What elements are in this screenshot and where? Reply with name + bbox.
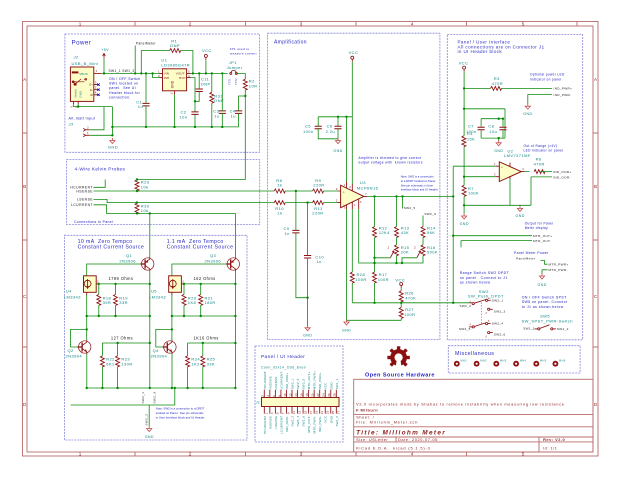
svg-text:GND: GND bbox=[303, 334, 312, 338]
svg-text:+5V: +5V bbox=[101, 48, 109, 52]
svg-text:SW1_1 SW1_2: SW1_1 SW1_2 bbox=[109, 69, 135, 73]
resistor R2 bbox=[243, 79, 257, 91]
resistor R7 bbox=[462, 185, 479, 196]
wire Q2 collector riser bbox=[86, 316, 88, 340]
svg-text:4: 4 bbox=[266, 395, 270, 397]
svg-text:9: 9 bbox=[287, 412, 291, 414]
wire Q1 collector down bbox=[149, 271, 151, 388]
svg-text:USB_B_Mini: USB_B_Mini bbox=[72, 61, 99, 66]
svg-text:SW2_5: SW2_5 bbox=[302, 378, 306, 389]
mounting hole MH2 bbox=[474, 359, 487, 367]
wire R17 riser bbox=[374, 258, 376, 272]
svg-text:8: 8 bbox=[277, 395, 281, 397]
svg-text:VBUS: VBUS bbox=[79, 72, 87, 76]
mounting hole MH5 bbox=[533, 359, 546, 367]
svg-text:5: 5 bbox=[522, 22, 525, 27]
svg-text:18: 18 bbox=[305, 393, 309, 397]
wire bus 343 bbox=[102, 343, 149, 356]
wire R30 bus bbox=[137, 203, 235, 214]
svg-text:MCP6N16: MCP6N16 bbox=[357, 185, 379, 190]
svg-text:VCC: VCC bbox=[324, 415, 328, 423]
wire feed from R2 down bbox=[137, 96, 245, 180]
wire U3 output bbox=[367, 195, 453, 197]
svg-text:INH: INH bbox=[164, 76, 169, 80]
svg-text:LED indicator on panel: LED indicator on panel bbox=[524, 149, 564, 153]
wire Q4 base loop bbox=[156, 329, 172, 347]
capacitor C2 bbox=[180, 109, 199, 119]
wire R31 bbox=[211, 73, 213, 127]
svg-text:LCURRENT: LCURRENT bbox=[279, 372, 283, 390]
wire R27 bottom gnd bus bbox=[347, 318, 402, 320]
svg-text:J2: J2 bbox=[73, 55, 79, 60]
wire R26 bottom bbox=[400, 302, 402, 308]
wire R17 bottom bbox=[374, 283, 376, 303]
svg-text:SW2_1: SW2_1 bbox=[141, 392, 145, 404]
wire R19 stubs bbox=[115, 284, 117, 316]
svg-text:IND_PWR-: IND_PWR- bbox=[554, 93, 572, 97]
wire R28 riser bbox=[351, 209, 353, 272]
svg-text:100R: 100R bbox=[404, 312, 415, 317]
svg-text:ON / OFF Switch SPST: ON / OFF Switch SPST bbox=[522, 295, 567, 299]
svg-text:SW2_3: SW2_3 bbox=[153, 392, 157, 404]
wire R29 stubs bbox=[136, 180, 138, 192]
svg-text:Connections to Panel: Connections to Panel bbox=[74, 220, 113, 224]
svg-text:7: 7 bbox=[281, 412, 285, 414]
svg-text:MTR_OUT-: MTR_OUT- bbox=[533, 239, 551, 243]
svg-text:GND: GND bbox=[329, 382, 333, 390]
wire minus input branch bbox=[464, 176, 496, 178]
svg-text:Q4: Q4 bbox=[153, 348, 160, 353]
mounting hole MH6 bbox=[553, 359, 566, 367]
svg-text:VCC: VCC bbox=[459, 60, 469, 65]
connector J2 USB_B_Mini bbox=[70, 55, 101, 108]
svg-text:Panel Meter Power: Panel Meter Power bbox=[514, 251, 549, 255]
svg-text:1n: 1n bbox=[316, 259, 321, 264]
svg-text:Range Switch SW2 DPDT: Range Switch SW2 DPDT bbox=[460, 271, 510, 275]
wire VCC drop bbox=[205, 60, 207, 73]
svg-text:D-: D- bbox=[90, 88, 93, 92]
transistor Q3 2N3906 bbox=[205, 253, 240, 271]
svg-text:180R: 180R bbox=[205, 300, 216, 305]
svg-text:MH4: MH4 bbox=[520, 359, 527, 363]
Amplification section box bbox=[268, 33, 440, 339]
wire HSENSE to amplifier bbox=[94, 190, 275, 192]
svg-text:25: 25 bbox=[331, 410, 335, 414]
capacitor C11 bbox=[196, 76, 211, 91]
svg-text:GND: GND bbox=[108, 145, 118, 150]
svg-text:HSENSE: HSENSE bbox=[268, 416, 272, 429]
mounting hole MH4 bbox=[513, 359, 526, 367]
svg-text:56K: 56K bbox=[427, 230, 435, 235]
regulator U1 LD3985G47R bbox=[158, 58, 191, 95]
svg-text:2N3906: 2N3906 bbox=[119, 258, 136, 263]
svg-text:SW2_4: SW2_4 bbox=[296, 416, 300, 427]
wire bottom bus A bbox=[87, 387, 236, 389]
svg-text:IND_PWR+: IND_PWR+ bbox=[554, 87, 573, 91]
svg-text:100n: 100n bbox=[303, 129, 314, 134]
svg-text:27: 27 bbox=[337, 410, 341, 414]
current source U4 LM334Z bbox=[64, 276, 100, 300]
note optional power LED bbox=[530, 73, 565, 82]
svg-text:TST2: TST2 bbox=[234, 78, 238, 85]
resistor R18 bbox=[97, 294, 112, 305]
wire U4 bottom bbox=[86, 295, 88, 316]
svg-text:24: 24 bbox=[322, 393, 326, 397]
op-amp U3 MCP6N16 bbox=[336, 180, 379, 209]
svg-text:-: - bbox=[501, 176, 502, 180]
svg-text:MH3: MH3 bbox=[500, 359, 507, 363]
wire VCC divider vertical bbox=[463, 72, 465, 109]
svg-text:in User Interface block and UI: in User Interface block and UI Header bbox=[156, 416, 205, 420]
transistor Q4 2N3904 bbox=[151, 340, 176, 359]
svg-text:on panel. Connect to J1: on panel. Connect to J1 bbox=[460, 276, 508, 280]
svg-text:13: 13 bbox=[298, 410, 302, 414]
svg-text:Rev: V2.0: Rev: V2.0 bbox=[543, 437, 565, 442]
wire C7 C8 rail bbox=[464, 109, 505, 141]
svg-text:470K: 470K bbox=[405, 295, 416, 300]
svg-text:GND: GND bbox=[523, 112, 532, 116]
svg-text:3: 3 bbox=[300, 452, 303, 457]
current source U5 LM334Z bbox=[149, 276, 185, 300]
Power section box bbox=[65, 34, 260, 152]
svg-text:Id: 1/1: Id: 1/1 bbox=[543, 445, 557, 450]
svg-text:2: 2 bbox=[189, 22, 192, 27]
svg-text:4-Wire Kelvin Probes: 4-Wire Kelvin Probes bbox=[75, 166, 126, 171]
jumper JP1 bbox=[230, 71, 238, 75]
wire +5V to bus bbox=[103, 59, 105, 73]
svg-text:-: - bbox=[343, 202, 344, 206]
wire riser to Q1 emitter bbox=[149, 213, 151, 257]
wire R12 bottom to R15 wiper bbox=[375, 238, 391, 258]
svg-text:SW2_2: SW2_2 bbox=[460, 304, 472, 308]
svg-text:1: 1 bbox=[265, 412, 269, 414]
svg-text:Header block for: Header block for bbox=[109, 91, 141, 95]
svg-text:+: + bbox=[343, 190, 345, 194]
svg-text:SW2_4: SW2_4 bbox=[492, 322, 504, 326]
note SW2 DPST bbox=[401, 175, 438, 192]
wire op-amp gnd pin down bbox=[346, 209, 348, 320]
svg-text:HCURRENT: HCURRENT bbox=[263, 416, 267, 434]
resistor R29 bbox=[135, 180, 150, 191]
svg-text:15K: 15K bbox=[467, 137, 475, 142]
svg-text:MTR_PWR+: MTR_PWR+ bbox=[313, 371, 317, 389]
svg-text:1u: 1u bbox=[138, 104, 143, 109]
wire panelmeter to MTR_PWR+ bbox=[541, 261, 548, 265]
svg-text:Conn_02x14_Odd_Even: Conn_02x14_Odd_Even bbox=[261, 366, 306, 370]
svg-text:162 Ohms: 162 Ohms bbox=[194, 276, 216, 281]
wire R21 stubs bbox=[200, 284, 202, 316]
shield pins bottom bbox=[73, 101, 78, 104]
svg-text:Amplifier is trimmed to give c: Amplifier is trimmed to give correct bbox=[358, 156, 421, 160]
svg-text:GND: GND bbox=[145, 435, 154, 439]
svg-text:23: 23 bbox=[325, 410, 329, 414]
wire bottom bus B bbox=[71, 388, 175, 405]
svg-text:1K8: 1K8 bbox=[188, 300, 197, 305]
svg-text:19: 19 bbox=[314, 410, 318, 414]
wire Q4 collector riser bbox=[171, 316, 173, 340]
wire between R8 R9 bbox=[285, 190, 337, 192]
resistor R31 bbox=[210, 92, 224, 103]
ground R7 bbox=[460, 214, 469, 226]
junction dots amp bbox=[295, 116, 404, 304]
svg-text:Alt. Batt Input: Alt. Batt Input bbox=[69, 116, 96, 120]
note amplifier trim bbox=[358, 156, 422, 165]
svg-text:J1: J1 bbox=[255, 401, 261, 405]
svg-text:MTR_OUT-: MTR_OUT- bbox=[307, 416, 311, 433]
note out of range bbox=[524, 144, 564, 153]
trimmer R16 bbox=[414, 245, 438, 258]
svg-text:IND_OOR-: IND_OOR- bbox=[285, 416, 289, 432]
wire C1 bbox=[145, 73, 147, 127]
wire INH tie bbox=[153, 73, 160, 77]
svg-text:26: 26 bbox=[327, 393, 331, 397]
wire R24 R25 bottoms bbox=[188, 367, 203, 388]
power symbol VCC amp bbox=[349, 50, 359, 62]
svg-text:470R: 470R bbox=[492, 81, 503, 86]
svg-text:MH5: MH5 bbox=[540, 359, 547, 363]
svg-text:B: B bbox=[594, 184, 597, 189]
svg-text:MH6: MH6 bbox=[559, 359, 566, 363]
svg-text:2: 2 bbox=[189, 452, 192, 457]
svg-text:10u: 10u bbox=[489, 129, 497, 134]
junction dots ui bbox=[452, 87, 504, 304]
ground C9 C10 bbox=[303, 325, 312, 337]
wire R23 stub bbox=[117, 343, 119, 356]
power symbol VCC ui bbox=[459, 60, 469, 71]
svg-text:VCC: VCC bbox=[395, 278, 405, 283]
svg-text:33R: 33R bbox=[119, 300, 128, 305]
svg-text:to a DPDT located on Panel.: to a DPDT located on Panel. bbox=[401, 179, 437, 183]
svg-text:6: 6 bbox=[272, 395, 276, 397]
svg-text:GND: GND bbox=[460, 222, 469, 226]
svg-text:5: 5 bbox=[276, 412, 280, 414]
wire Q2 base loop bbox=[71, 329, 87, 347]
transistor Q1 2N3906 bbox=[119, 253, 153, 271]
junction dots kelvin bbox=[136, 178, 151, 214]
svg-text:IND_OOR-: IND_OOR- bbox=[553, 175, 571, 179]
svg-text:Output for Panel: Output for Panel bbox=[525, 222, 554, 226]
svg-text:LD3985G47R: LD3985G47R bbox=[161, 63, 190, 68]
svg-text:1n: 1n bbox=[285, 231, 290, 236]
wire mid bus 303 bbox=[352, 302, 469, 304]
svg-text:3: 3 bbox=[300, 22, 303, 27]
resistor R22 bbox=[100, 356, 115, 367]
wire R2 bottom jog to C4 bbox=[239, 90, 246, 127]
svg-text:GND: GND bbox=[329, 415, 333, 423]
svg-text:SW2_6: SW2_6 bbox=[494, 333, 506, 337]
wire C3 bbox=[221, 73, 223, 127]
node MTR_OUT- bbox=[461, 241, 532, 248]
svg-text:located on Panel. See pin sch: located on Panel. See pin schematic bbox=[156, 411, 204, 415]
wire R16 wiper bbox=[402, 258, 417, 263]
wire 162 ohm bus bbox=[184, 283, 235, 285]
svg-text:2.2u: 2.2u bbox=[326, 129, 335, 134]
svg-text:SW2_1: SW2_1 bbox=[291, 378, 295, 389]
ground amp caps bbox=[333, 138, 342, 153]
wire C9 net bbox=[296, 191, 308, 298]
node MTR_OUT+ bbox=[453, 235, 532, 237]
svg-text:1: 1 bbox=[79, 22, 82, 27]
resistor R12 bbox=[373, 225, 391, 237]
svg-text:Panel / UI Header: Panel / UI Header bbox=[261, 354, 305, 360]
svg-text:39R: 39R bbox=[103, 300, 112, 305]
svg-text:33K: 33K bbox=[207, 361, 215, 366]
svg-text:100R: 100R bbox=[378, 277, 389, 282]
svg-text:VCC: VCC bbox=[324, 382, 328, 390]
ground SW2_2 bbox=[145, 426, 154, 439]
svg-text:22: 22 bbox=[316, 393, 320, 397]
wire R28 bottom to bus bbox=[351, 283, 353, 303]
svg-text:1K16 Ohms: 1K16 Ohms bbox=[194, 336, 219, 341]
wire U2 vminus down bbox=[509, 179, 511, 205]
wire LSENSE to amplifier bbox=[94, 199, 275, 202]
svg-text:Open Source Hardware: Open Source Hardware bbox=[365, 373, 435, 379]
wire cap rail bbox=[318, 117, 352, 126]
miscellaneous box bbox=[448, 346, 580, 373]
svg-text:2N3904: 2N3904 bbox=[151, 354, 168, 359]
svg-text:SW1 located on: SW1 located on bbox=[109, 82, 138, 86]
wire node SW2_5 stub bbox=[402, 196, 404, 208]
svg-text:VCC: VCC bbox=[202, 48, 212, 53]
svg-text:SW2_5: SW2_5 bbox=[404, 206, 416, 210]
Panel User Interface section box bbox=[447, 34, 582, 339]
svg-text:LSENSE: LSENSE bbox=[274, 376, 278, 389]
svg-text:SW2_1: SW2_1 bbox=[492, 298, 504, 302]
svg-text:+: + bbox=[501, 166, 503, 170]
svg-text:File: Milliohm_Meter.sch: File: Milliohm_Meter.sch bbox=[356, 420, 418, 425]
svg-text:SW2_5: SW2_5 bbox=[459, 327, 471, 331]
svg-text:LSENSE: LSENSE bbox=[274, 416, 278, 429]
wire Q3 collector down bbox=[234, 271, 236, 388]
resistor R21 bbox=[199, 294, 216, 305]
capacitor C3 bbox=[213, 108, 226, 118]
svg-text:Optional power LED: Optional power LED bbox=[530, 73, 565, 77]
wire C10 net bbox=[307, 203, 309, 327]
svg-text:in UI Header block: in UI Header block bbox=[458, 49, 503, 54]
svg-text:11: 11 bbox=[292, 411, 296, 414]
svg-text:220R: 220R bbox=[313, 183, 324, 188]
ground power bbox=[108, 138, 118, 150]
svg-text:LMV7271MF: LMV7271MF bbox=[504, 153, 531, 158]
svg-text:Size: USLetter: Size: USLetter bbox=[356, 437, 388, 442]
wire R18 stubs bbox=[98, 284, 100, 316]
wire VCC2 to R26 bbox=[400, 288, 402, 291]
wire VCC vertical bbox=[351, 62, 353, 185]
ground ind pwr bbox=[523, 104, 532, 116]
svg-text:Out of Range (>4V): Out of Range (>4V) bbox=[524, 144, 558, 148]
wire gnd bottom bus bbox=[112, 107, 238, 136]
svg-text:SW2_3: SW2_3 bbox=[494, 309, 506, 313]
ground C7 C8 bbox=[494, 140, 503, 153]
svg-text:12: 12 bbox=[288, 393, 292, 397]
svg-text:1: 1 bbox=[79, 452, 82, 457]
svg-text:F Milburn: F Milburn bbox=[356, 408, 378, 413]
svg-text:43K: 43K bbox=[401, 230, 409, 235]
current sources section box bbox=[64, 235, 247, 440]
svg-text:VOUT: VOUT bbox=[176, 72, 185, 76]
svg-text:GND: GND bbox=[538, 283, 547, 287]
svg-text:Jumper: Jumper bbox=[227, 65, 243, 70]
resistor R23 bbox=[116, 356, 133, 367]
svg-text:LM334Z: LM334Z bbox=[64, 295, 81, 300]
wire HCURRENT bbox=[94, 180, 106, 188]
pin 1 VBUS bbox=[94, 72, 101, 74]
resistor R25 bbox=[201, 356, 216, 367]
power symbol VCC bbox=[202, 48, 212, 60]
svg-text:130R: 130R bbox=[121, 361, 132, 366]
svg-text:14: 14 bbox=[294, 393, 298, 397]
wire R3 row bbox=[464, 87, 552, 89]
wire LCURRENT bbox=[94, 205, 138, 214]
svg-text:Constant Current Source: Constant Current Source bbox=[167, 245, 234, 251]
svg-text:GND: GND bbox=[79, 91, 83, 97]
Kelvin probes section box bbox=[67, 160, 260, 225]
resistor R6 bbox=[534, 157, 545, 174]
svg-text:1k: 1k bbox=[277, 183, 282, 188]
svg-text:D+: D+ bbox=[89, 83, 93, 87]
svg-text:2N3904: 2N3904 bbox=[66, 354, 83, 359]
svg-text:6K1: 6K1 bbox=[106, 361, 115, 366]
svg-text:Amplification: Amplification bbox=[274, 39, 307, 45]
svg-text:SW2_6: SW2_6 bbox=[302, 416, 306, 427]
wire R13 branch bbox=[396, 196, 398, 226]
resistor R28 bbox=[350, 272, 366, 283]
resistor R26 bbox=[399, 291, 416, 302]
svg-text:C5: C5 bbox=[305, 124, 311, 129]
svg-text:GND: GND bbox=[333, 149, 342, 153]
svg-text:1u: 1u bbox=[231, 113, 236, 118]
svg-text:MTR_PWR+: MTR_PWR+ bbox=[549, 263, 569, 267]
title block bbox=[354, 379, 593, 452]
svg-text:LCURRENT: LCURRENT bbox=[279, 416, 283, 434]
resistor R27 bbox=[399, 307, 415, 318]
svg-text:MH2: MH2 bbox=[480, 359, 487, 363]
svg-text:Q2: Q2 bbox=[68, 348, 75, 353]
wire node SW2_6 stub bbox=[422, 216, 424, 227]
svg-text:MH1: MH1 bbox=[460, 359, 467, 363]
wire J3 pin1 bbox=[89, 134, 112, 136]
svg-text:BYP: BYP bbox=[179, 76, 185, 80]
svg-text:10: 10 bbox=[283, 393, 287, 397]
wire bus 343 cell2 bbox=[188, 343, 236, 356]
note SW2 connection bbox=[156, 407, 205, 420]
svg-text:2N3906: 2N3906 bbox=[205, 258, 222, 263]
svg-text:IND_PWR-: IND_PWR- bbox=[318, 416, 322, 432]
resistor R4 bbox=[462, 131, 475, 147]
wire R2 top bbox=[244, 73, 246, 79]
resistor R24 bbox=[186, 356, 201, 367]
svg-text:SW1_1: SW1_1 bbox=[335, 378, 339, 389]
wire shield gnd bbox=[73, 104, 112, 106]
svg-text:10k: 10k bbox=[141, 184, 149, 189]
svg-text:panel. See UI: panel. See UI bbox=[109, 86, 136, 90]
wire between R10 R11 bbox=[285, 202, 337, 204]
resistor R19 bbox=[114, 294, 129, 305]
wire BYP to C2 bbox=[191, 78, 196, 127]
wire R7 bottom net bbox=[464, 196, 531, 213]
svg-text:4: 4 bbox=[411, 22, 414, 27]
wire R20 stubs bbox=[183, 284, 185, 316]
mounting hole MH3 bbox=[493, 359, 506, 367]
note output for panel bbox=[525, 222, 554, 231]
svg-text:IND_PWR+: IND_PWR+ bbox=[318, 372, 322, 389]
svg-text:JP1 used to: JP1 used to bbox=[230, 47, 250, 51]
svg-text:PanelMeter: PanelMeter bbox=[516, 257, 535, 261]
svg-text:VIN: VIN bbox=[164, 72, 169, 76]
resistor R10 bbox=[274, 201, 285, 216]
svg-text:IND_OOR+: IND_OOR+ bbox=[285, 372, 289, 389]
svg-text:17: 17 bbox=[309, 410, 313, 414]
